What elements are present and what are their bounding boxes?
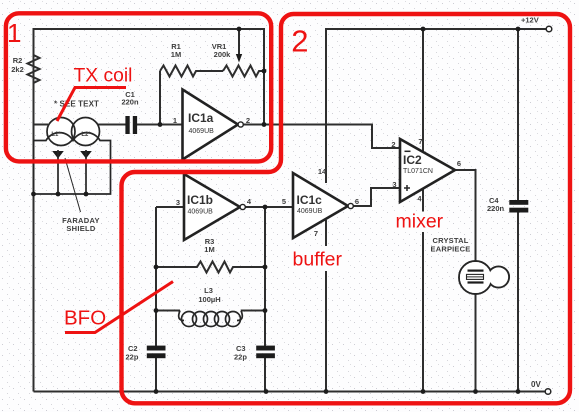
- svg-text:IC1c: IC1c: [297, 193, 323, 207]
- svg-text:3: 3: [392, 180, 396, 189]
- svg-text:TL071CN: TL071CN: [403, 168, 433, 175]
- svg-text:TX coil: TX coil: [74, 66, 133, 87]
- svg-text:1: 1: [7, 18, 21, 48]
- svg-text:0V: 0V: [531, 380, 541, 389]
- svg-text:IC1a: IC1a: [188, 111, 214, 125]
- svg-text:buffer: buffer: [293, 249, 343, 271]
- svg-text:220n: 220n: [487, 204, 505, 213]
- svg-text:SHIELD: SHIELD: [66, 224, 96, 233]
- svg-text:5: 5: [282, 197, 286, 206]
- svg-text:2: 2: [291, 23, 308, 58]
- svg-text:EARPIECE: EARPIECE: [431, 245, 471, 254]
- svg-text:1M: 1M: [171, 50, 181, 59]
- svg-text:200k: 200k: [214, 50, 232, 59]
- svg-text:7: 7: [314, 229, 318, 238]
- svg-text:6: 6: [355, 197, 359, 206]
- svg-text:2: 2: [246, 116, 250, 125]
- svg-text:4069UB: 4069UB: [189, 128, 215, 135]
- svg-text:* SEE TEXT: * SEE TEXT: [54, 100, 99, 109]
- svg-text:220n: 220n: [121, 98, 139, 107]
- svg-text:4069UB: 4069UB: [188, 209, 214, 216]
- svg-text:22p: 22p: [234, 353, 247, 362]
- svg-text:1: 1: [173, 116, 177, 125]
- svg-text:L2*: L2*: [81, 132, 91, 138]
- svg-text:4069UB: 4069UB: [297, 208, 323, 215]
- svg-text:100µH: 100µH: [198, 295, 220, 304]
- svg-text:2: 2: [391, 140, 395, 149]
- svg-text:L3: L3: [204, 286, 213, 295]
- svg-text:2k2: 2k2: [11, 65, 24, 74]
- svg-text:14: 14: [318, 167, 327, 176]
- svg-text:22p: 22p: [126, 353, 139, 362]
- svg-text:1M: 1M: [204, 245, 214, 254]
- svg-text:3: 3: [176, 198, 180, 207]
- svg-text:+12V: +12V: [521, 16, 539, 25]
- svg-text:7: 7: [418, 137, 422, 146]
- svg-text:IC2: IC2: [403, 153, 422, 167]
- svg-text:6: 6: [457, 159, 461, 168]
- svg-text:R2: R2: [13, 56, 23, 65]
- svg-text:BFO: BFO: [64, 307, 106, 330]
- svg-text:IC1b: IC1b: [187, 193, 213, 207]
- svg-text:L1*: L1*: [51, 132, 61, 138]
- svg-text:mixer: mixer: [396, 211, 444, 233]
